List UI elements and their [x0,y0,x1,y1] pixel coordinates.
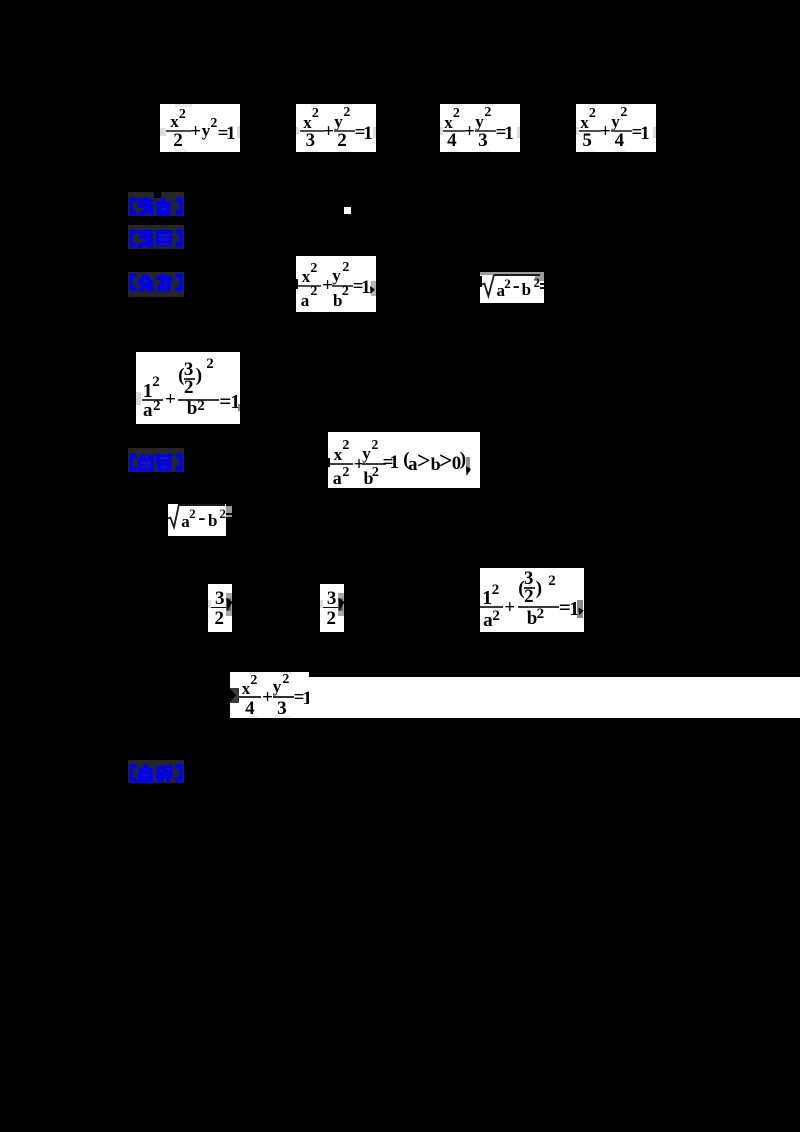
box I2 selected comma [577,600,584,618]
formula box I1: 1^2/a^2 + (3/2)^2/b^2 = 1 [136,352,240,424]
box E caret artifact [371,281,376,296]
box F comma artifact [466,457,471,472]
label zhuanti background [128,225,184,249]
formula box B: x^2/3 + y^2/2 = 1 [296,104,376,152]
box E left notch [296,279,298,289]
formula box A: x^2/2 + y^2 = 1 [160,104,240,152]
formula box D: x^2/5 + y^2/4 = 1 [576,104,656,152]
label fenxi text [129,273,183,292]
formula box I2: 1^2/a^2 + (3/2)^2/b^2 = 1 [480,568,584,632]
formula box C: x^2/4 + y^2/3 = 1 [440,104,520,152]
grey band over box G [480,272,544,275]
label jieda text [129,453,183,472]
formula box K: x^2/4 + y^2/3 = 1 [230,672,309,718]
formula box G: sqrt(a^2-b^2) [480,274,544,303]
white strip [309,677,800,718]
formula box H: sqrt(a^2-b^2) [168,504,226,536]
box K left tab [230,688,239,703]
formula box E: x^2/a^2 + y^2/b^2 = 1 [296,256,376,312]
label kaodian text [129,197,183,216]
formula box J1: 3/2 [208,584,232,632]
box F left notch [328,458,330,467]
label dianping text [129,764,183,783]
box I1 comma artifact [238,404,240,411]
label fenxi background [128,272,184,297]
radical box G [480,272,544,303]
radical box H [168,504,226,536]
small white selection square [344,207,351,214]
box G equals fragment [540,283,544,285]
box H equals fragment [226,513,232,515]
box H grey corner [226,506,232,519]
label dianping background [128,760,184,783]
label kaodian background [128,192,184,216]
label zhuanti text [129,229,183,248]
label jieda background [128,448,184,472]
formula box J2: 3/2 [320,584,344,632]
box I1 left tab [136,392,141,405]
grey corner box G [535,272,544,281]
notch over label [154,192,161,198]
box G left notch [480,276,482,286]
formula box F: x^2/a^2+y^2/b^2=1 (a>b>0) [328,432,480,488]
